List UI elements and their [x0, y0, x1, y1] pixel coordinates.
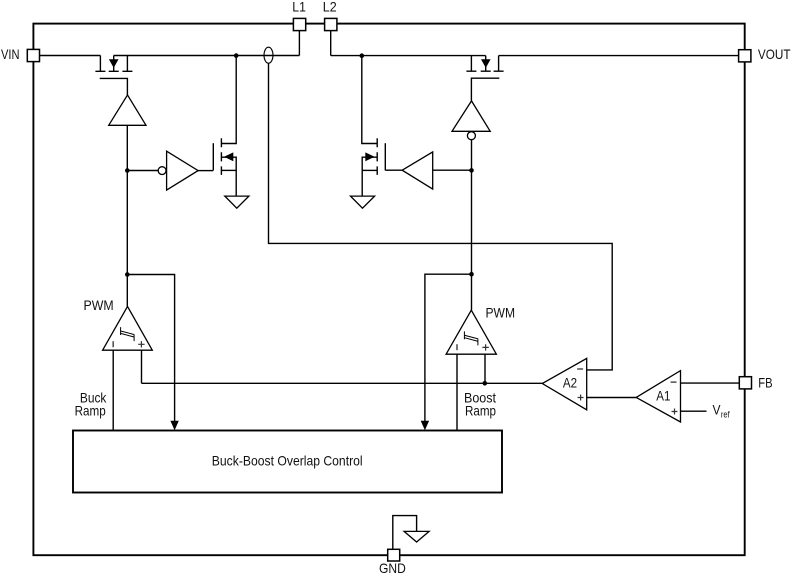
svg-text:Buck-Boost Overlap Control: Buck-Boost Overlap Control [212, 453, 363, 468]
wire switch node right (L2 to Q2) [331, 55, 486, 57]
node left PWM out [125, 272, 130, 277]
wire right PWM branch to overlap box [425, 274, 472, 421]
arrowhead left into overlap box [170, 421, 178, 431]
wire left PWM plus drop [141, 350, 143, 383]
wire A1 plus to Vref [681, 410, 707, 412]
wire right PWM plus drop [484, 354, 486, 383]
transistor Q1 left PMOS [95, 56, 132, 96]
svg-text:VIN: VIN [1, 47, 20, 62]
pin VIN [27, 49, 39, 61]
node left driver [125, 168, 130, 173]
body diode D2 of Q2 [481, 59, 491, 68]
svg-text:Ramp: Ramp [75, 403, 106, 418]
minus mark A2 [577, 368, 583, 370]
bulk arrow of Q3 [224, 152, 233, 161]
wire VIN to Q1 source [40, 55, 101, 57]
svg-text:A1: A1 [656, 389, 670, 404]
bubble of U2 [467, 132, 475, 140]
pin L2 [325, 18, 337, 30]
comparator CMP1 left PWM [103, 307, 153, 351]
wire L2 drop [330, 31, 332, 56]
node right driver [469, 168, 474, 173]
minus mark A1 [671, 381, 677, 383]
wire right gate-drive rail [471, 140, 473, 310]
bulk arrow of Q4 [365, 152, 374, 161]
svg-text:GND: GND [379, 561, 406, 576]
plus mark CMP1 [138, 341, 144, 347]
node right PWM out [469, 272, 474, 277]
wire Q2 drain to VOUT [499, 55, 739, 57]
wire L1 drop [298, 31, 300, 56]
op-amp A2 [542, 358, 586, 409]
wire current sense to A2 minus [269, 63, 613, 370]
pin GND [388, 549, 400, 561]
buffer U4 right NMOS driver [385, 152, 471, 189]
minus mark CMP1 [112, 341, 114, 347]
wire error amp output bus A2 to PWM inputs [142, 382, 543, 384]
wire U3 output [198, 170, 213, 172]
plus mark A1 [672, 409, 678, 415]
pin VOUT [739, 50, 751, 62]
op-amp A1 [636, 371, 680, 422]
svg-text:FB: FB [758, 375, 772, 390]
node switch right / Q4 drain [360, 53, 365, 58]
wire GND pin to ground symbol [393, 516, 417, 550]
ground symbol at GND pin [404, 531, 429, 542]
node A2 output [483, 381, 488, 386]
svg-text:L2: L2 [323, 0, 337, 14]
plus mark CMP2 [482, 344, 488, 350]
plus mark A2 [578, 395, 584, 401]
comparator CMP2 right PWM [446, 310, 496, 354]
svg-text:L1: L1 [292, 0, 306, 14]
svg-text:PWM: PWM [84, 298, 114, 313]
ramp glyph CMP1 [121, 327, 135, 341]
wire U4 input [433, 169, 472, 171]
current sense element on switch node [264, 47, 273, 63]
body diode D1 of Q1 [109, 59, 119, 68]
svg-text:VOUT: VOUT [758, 47, 791, 62]
inverter U3 left NMOS driver [127, 151, 213, 190]
buffer U2 right PMOS driver [452, 101, 490, 131]
ground under Q3 [225, 196, 249, 208]
bubble of U3 [158, 167, 166, 175]
transistor Q4 right NMOS [362, 56, 386, 196]
wire A1 minus to FB pin [681, 382, 740, 384]
wire left gate-drive rail [126, 125, 128, 306]
wire U4 output [385, 169, 402, 171]
arrowhead right into overlap box [421, 421, 429, 431]
wire left PWM branch to overlap box [127, 275, 174, 422]
minus mark CMP2 [456, 344, 458, 350]
pin L1 [293, 18, 305, 30]
wire U3 input [127, 170, 158, 172]
svg-text:PWM: PWM [486, 305, 516, 320]
wire buck ramp input [112, 350, 114, 430]
wire A2 plus to A1 output [587, 397, 637, 399]
svg-text:Ramp: Ramp [465, 403, 496, 418]
transistor Q3 left NMOS [213, 56, 236, 196]
wire switch node left (Q1 drain to L1 drop) [114, 55, 300, 57]
pin FB [739, 377, 751, 389]
svg-text:A2: A2 [563, 375, 577, 390]
node switch left / Q3 drain [234, 53, 239, 58]
wire boost ramp input [456, 354, 458, 430]
Buck-Boost Overlap Control box [73, 431, 502, 493]
buffer U1 left PMOS driver [109, 95, 146, 125]
ground under Q4 [351, 196, 375, 208]
transistor Q2 right PMOS [466, 56, 503, 101]
ramp glyph CMP2 [464, 331, 478, 345]
